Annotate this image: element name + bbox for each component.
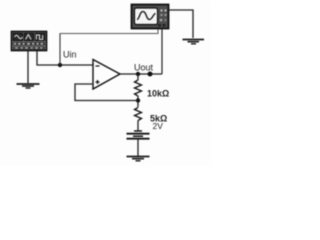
wire (R2 to battery)	[137, 121, 139, 131]
svg-text:Uout: Uout	[134, 63, 154, 73]
battery V1	[127, 131, 150, 139]
wire (battery to ground)	[137, 139, 139, 156]
svg-text:Uin: Uin	[63, 50, 77, 60]
wire (oscilloscope ground terminal to ground)	[169, 10, 193, 38]
node (feedback tap between R1 and R2)	[136, 98, 140, 102]
wire (Uin node up to top run)	[59, 34, 61, 66]
wire (op-amp output to scope wire)	[120, 73, 162, 75]
wire (R1 to junction)	[137, 96, 139, 107]
wire (top run across to oscilloscope channel A)	[60, 29, 159, 34]
ground (right of oscilloscope)	[183, 40, 205, 44]
node Uin	[58, 63, 62, 67]
svg-text:10kΩ: 10kΩ	[147, 89, 169, 99]
oscilloscope XSC1	[132, 5, 169, 29]
svg-text:2V: 2V	[153, 121, 164, 131]
function generator XFG1	[12, 32, 47, 51]
node Uout	[136, 72, 140, 76]
wire (FG + output to op-amp inverting input)	[37, 51, 93, 65]
resistor R1	[135, 80, 142, 96]
node (connector on output wire)	[148, 72, 153, 77]
wire (Uout node down to R1)	[137, 74, 139, 80]
resistor R2	[135, 108, 142, 121]
ground (below function generator)	[17, 84, 40, 88]
op-amp U1	[93, 60, 120, 90]
wire (oscilloscope channel B down to Uout node)	[161, 29, 163, 74]
wire (feedback from divider to op-amp non-inverting input)	[75, 84, 138, 101]
wire (FG COM pin to ground)	[27, 51, 29, 83]
ground (bottom of divider chain)	[127, 157, 150, 161]
